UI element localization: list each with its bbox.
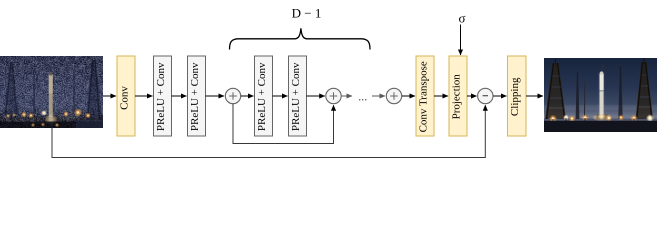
wire: PReLU2 to adder 1 [206,95,225,97]
faint far mast [584,82,585,119]
wire: adder1 to PReLU3 [241,95,254,97]
clean mid-left mast [576,72,580,119]
light cores [552,117,651,120]
svg-text:PReLU + Conv: PReLU + Conv [155,62,167,131]
layer PReLU+Conv 3 [255,56,273,136]
clean rocket glow [598,72,604,116]
wire: sigma down to Projection [460,25,462,56]
right lattice tower [86,60,103,120]
wire: Projection to subtractor [467,95,477,97]
skip wire: input image to subtractor (global residual) [52,105,485,157]
adder circle 2 [326,88,341,103]
wire: Conv Transpose to Projection [434,95,448,97]
svg-text:Conv Transpose: Conv Transpose [417,61,429,132]
ground strip (noisy) [0,122,103,129]
launch pad warm glow [593,115,611,121]
skip wire: adder1 to adder2 (inner residual) [233,104,334,144]
noise overlay fine [0,56,103,128]
mast behind rocket [602,65,603,75]
clean right mast [618,66,622,119]
svg-text:Clipping: Clipping [509,77,521,116]
rocket (noisy) [49,72,53,121]
wire: Conv to PReLU1 [135,95,153,97]
clean right lattice tower [636,58,654,119]
mast behind rocket [51,64,52,76]
noise overlay coarse [0,56,103,128]
clean left lattice tower [545,59,566,119]
launch mount clean [597,115,608,120]
wire: dots to adder 3 (gray) [372,95,385,97]
layer PReLU+Conv 2 [188,56,206,136]
svg-text:Projection: Projection [450,74,462,120]
clean rocket [600,74,604,115]
wire: subtractor to Clipping [493,95,506,97]
svg-text:D − 1: D − 1 [292,6,322,21]
light poles [553,118,634,122]
wire: Clipping to output image [526,95,543,97]
cloud band near horizon [544,105,657,110]
clean ground lights [549,115,557,123]
wire: PReLU3 to PReLU4 [273,95,288,97]
output image (clean photo) [544,58,657,132]
layer Projection [449,56,467,136]
layer PReLU+Conv 1 [154,56,172,136]
light flares [549,117,654,119]
svg-text:Conv: Conv [118,86,130,110]
layer Conv Transpose [416,56,434,136]
svg-text:...: ... [358,89,367,103]
svg-text:PReLU + Conv: PReLU + Conv [290,62,302,131]
wire: PReLU1 to PReLU2 [172,95,187,97]
wire: adder2 to dots (gray) [342,95,353,97]
launch mount (noisy) [45,117,57,122]
small mast left-mid [33,70,36,113]
layer Clipping [508,56,527,136]
adder circle 1 [225,88,240,103]
adder circle 3 [386,88,401,103]
clean ground strip [544,121,657,132]
wire: adder3 to Conv Transpose [402,95,415,97]
left lattice tower [3,62,19,114]
input image (noisy photo) [0,56,103,128]
wire: PReLU4 to adder 2 [307,95,325,97]
mid mast right of rocket [73,69,76,112]
subtractor circle [478,88,493,103]
svg-text:PReLU + Conv: PReLU + Conv [256,62,268,131]
svg-text:σ: σ [458,10,465,25]
svg-text:PReLU + Conv: PReLU + Conv [189,62,201,131]
wire: image to Conv [103,95,116,97]
ground lights noisy [6,108,91,127]
layer PReLU+Conv 4 [289,56,307,136]
layer Conv [117,56,135,136]
brace D-1 [230,28,371,49]
